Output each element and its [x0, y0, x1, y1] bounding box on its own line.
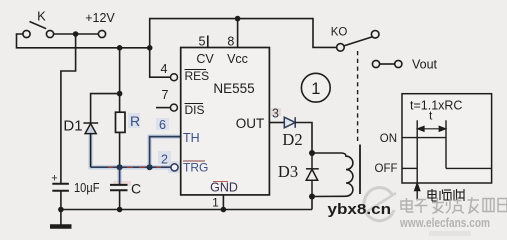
svg-text:RES: RES — [185, 69, 210, 83]
svg-text:Vout: Vout — [412, 58, 438, 72]
svg-text:OFF: OFF — [375, 163, 398, 175]
capacitor C — [110, 185, 128, 190]
red scan dashes on wire — [108, 166, 161, 168]
svg-text:6: 6 — [159, 118, 166, 132]
wire R bottom to blue node — [119, 132, 121, 167]
svg-text:8: 8 — [227, 35, 234, 49]
svg-text:NE555: NE555 — [213, 81, 254, 96]
char 发 — [432, 202, 444, 204]
node row2 right corner — [147, 45, 153, 51]
wire relay bottom to ground rail — [311, 197, 313, 210]
svg-text:1: 1 — [311, 80, 320, 98]
watermark faint bar — [429, 231, 471, 236]
svg-text:C: C — [131, 181, 141, 197]
char 电 — [401, 201, 412, 209]
pin 7 bubble — [170, 104, 177, 111]
label GND — [210, 181, 238, 195]
node TH tap — [147, 164, 153, 170]
char partial edge — [498, 199, 507, 212]
wire cap to ground rail — [60, 191, 62, 210]
svg-text:7: 7 — [162, 88, 169, 102]
svg-text:R: R — [130, 113, 140, 129]
svg-text:GND: GND — [210, 181, 238, 195]
wire switch right to +12V — [54, 33, 99, 35]
label RES — [185, 69, 210, 83]
svg-text:K: K — [37, 9, 46, 24]
timing diagram box — [402, 94, 492, 183]
watermark chinese characters — [401, 197, 507, 214]
node circled 1 — [301, 73, 330, 102]
char 烧 — [449, 199, 451, 208]
pin 7 stub — [156, 107, 170, 109]
node R top on row2 — [117, 45, 123, 51]
svg-text:Vcc: Vcc — [227, 52, 248, 66]
node C top — [117, 164, 123, 170]
svg-text:KO: KO — [331, 27, 348, 39]
blue scan halo under highlighted wires — [91, 128, 180, 186]
svg-text:5: 5 — [199, 35, 206, 49]
waveform OFF level — [402, 167, 417, 169]
svg-text:TRG: TRG — [183, 161, 208, 175]
svg-text:D1: D1 — [63, 118, 82, 135]
wire D1 top branch — [91, 94, 120, 123]
wire ground rail (bottom) — [61, 209, 312, 211]
pin 2 bubble — [171, 164, 178, 171]
switch K — [23, 22, 54, 38]
label TRG — [183, 161, 208, 175]
terminal +12V — [98, 30, 105, 37]
wire C to ground rail — [119, 190, 121, 209]
node C ground — [117, 207, 123, 213]
char partial 网 — [483, 199, 494, 212]
svg-text:DIS: DIS — [185, 103, 205, 117]
svg-text:CV: CV — [196, 52, 214, 66]
waveform extension lines — [416, 120, 418, 183]
wire +12V rail down with jog — [61, 34, 76, 183]
svg-text:OUT: OUT — [236, 116, 265, 131]
node relay top — [309, 150, 315, 156]
watermark logo arc — [364, 188, 396, 221]
dashed mechanical link — [357, 51, 359, 144]
wire pin 4 — [150, 48, 171, 77]
wire D1 to blue node — [90, 134, 92, 168]
svg-text:4: 4 — [161, 62, 168, 76]
pale red scan tint patches — [113, 108, 281, 186]
node Vcc top — [235, 16, 241, 22]
switch KO — [337, 31, 379, 52]
node switch junction — [73, 31, 79, 37]
wire node to C — [119, 167, 121, 184]
pin 4 bubble — [171, 74, 178, 81]
svg-text:www.elecfans.com: www.elecfans.com — [399, 216, 490, 230]
diode D1 — [83, 123, 98, 134]
relay core bar — [359, 145, 361, 195]
svg-text:D2: D2 — [282, 130, 302, 149]
char 子 — [416, 199, 426, 201]
svg-text:ON: ON — [380, 133, 397, 145]
wire TH pin 6 (highlighted) — [150, 137, 181, 168]
diode D2 — [284, 117, 295, 128]
ground — [50, 210, 72, 227]
svg-text:ybx8.cn: ybx8.cn — [328, 201, 392, 218]
svg-text:+: + — [51, 173, 57, 185]
dimension arrow t — [418, 126, 446, 131]
waveform ON level — [402, 137, 446, 139]
resistor R — [116, 112, 126, 132]
node ground rail left — [58, 207, 64, 213]
wire pin 1 — [222, 195, 224, 210]
svg-text:TH: TH — [183, 131, 200, 145]
capacitor 10uF — [52, 184, 69, 191]
node relay bottom — [309, 194, 315, 200]
label DIS — [185, 103, 205, 117]
diode D3 — [306, 153, 319, 197]
terminal Vout pair — [372, 60, 402, 67]
relay coil — [312, 153, 353, 197]
pin 5 stub — [207, 36, 209, 48]
node D1 tap — [117, 91, 123, 97]
svg-text:10µF: 10µF — [74, 180, 100, 195]
svg-text:3: 3 — [272, 107, 279, 121]
pale blue scan tint patches — [128, 113, 207, 176]
svg-text:D3: D3 — [278, 162, 298, 181]
svg-text:2: 2 — [161, 153, 168, 167]
IC U1 NE555 timer — [181, 48, 270, 195]
wire row2 to R — [119, 48, 121, 112]
wire top rail — [150, 19, 337, 48]
char 友 — [468, 199, 480, 201]
svg-text:+12V: +12V — [85, 11, 115, 25]
label 电源断 (power off) — [428, 189, 464, 201]
svg-text:t=1.1xRC: t=1.1xRC — [410, 99, 462, 113]
wire D2 to relay node — [295, 123, 312, 154]
wire RC node horizontal (highlighted) — [91, 166, 171, 168]
wire pin 3 OUT — [269, 122, 284, 124]
node pin1 ground — [221, 207, 227, 213]
power-off arrow below box — [415, 184, 420, 201]
wire pin 8 — [237, 19, 239, 48]
wire switch left stub + row2 — [17, 34, 150, 48]
svg-text:1: 1 — [212, 196, 219, 210]
